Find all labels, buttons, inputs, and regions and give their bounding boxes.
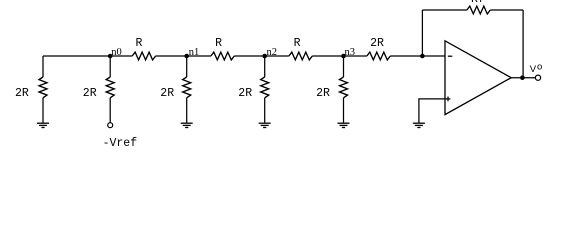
- svg-text:R: R: [136, 37, 143, 50]
- svg-text:n1: n1: [189, 47, 200, 58]
- svg-text:2R: 2R: [370, 37, 384, 50]
- terminal circle -Vref: [108, 123, 113, 128]
- wire: op-amp output to Vo terminal: [511, 77, 535, 79]
- ground op-amp + input: [413, 123, 425, 127]
- resistor 2R branch n0: [106, 77, 114, 98]
- ground branch n2: [259, 123, 271, 127]
- wire: feedback right vertical down to output: [522, 10, 524, 78]
- ground branch n3: [338, 123, 350, 127]
- wire: non-inverting input to ground: [419, 99, 445, 123]
- svg-text:n3: n3: [345, 47, 356, 58]
- resistor 2R branch n2: [261, 77, 269, 98]
- wire: rail R1 to R2 through n1: [156, 55, 211, 57]
- svg-text:2R: 2R: [15, 87, 29, 100]
- svg-text:Rf: Rf: [471, 0, 485, 6]
- wire: branch 1 vertical stub bottom: [42, 98, 44, 123]
- ground branch 1: [37, 123, 49, 127]
- svg-text:2R: 2R: [160, 87, 174, 100]
- wire: branch n2 vertical stub top: [264, 56, 266, 77]
- wire: branch n3 vertical stub top: [343, 56, 345, 77]
- resistor Rf feedback: [467, 6, 490, 14]
- resistor 2R branch n1: [183, 77, 191, 98]
- op-amp U1 triangle: [445, 41, 511, 115]
- wire: branch n1 vertical stub bottom: [186, 98, 188, 123]
- svg-text:R: R: [215, 37, 222, 50]
- svg-text:R: R: [294, 37, 301, 50]
- junction dot feedback tap at inverting input: [420, 54, 425, 59]
- wire: rail R2 to R3 through n2: [234, 55, 289, 57]
- resistor R3 (R, between n2 and n3): [289, 52, 312, 60]
- resistor R1 (R, between n0 and n1): [132, 52, 155, 60]
- resistor 2R branch 1: [39, 77, 47, 98]
- ground branch n1: [181, 123, 193, 127]
- wire: branch n0 vertical stub to -Vref terminal: [109, 98, 111, 123]
- node n0 junction dot: [108, 54, 113, 59]
- wire: branch n2 vertical stub bottom: [264, 98, 266, 123]
- node n3 junction dot: [341, 54, 346, 59]
- wire: branch n1 vertical stub top: [186, 56, 188, 77]
- wire: rail R3 to R4 through n3: [312, 55, 367, 57]
- wire: main rail left segment from top-left corner to R1: [43, 55, 132, 57]
- wire: branch n0 vertical stub top: [109, 56, 111, 77]
- terminal circle Vo: [535, 75, 540, 80]
- op-amp minus sign: [448, 55, 452, 57]
- svg-text:V: V: [530, 64, 537, 75]
- resistor 2R branch n3: [340, 77, 348, 98]
- svg-text:o: o: [537, 62, 542, 73]
- svg-text:2R: 2R: [83, 87, 97, 100]
- svg-text:2R: 2R: [238, 87, 252, 100]
- wire: branch n3 vertical stub bottom: [343, 98, 345, 123]
- svg-text:-Vref: -Vref: [103, 137, 138, 147]
- svg-text:2R: 2R: [316, 87, 330, 100]
- svg-text:n0: n0: [111, 47, 122, 58]
- wire: feedback top left segment: [422, 9, 467, 11]
- node n2 junction dot: [262, 54, 267, 59]
- node n1 junction dot: [184, 54, 189, 59]
- wire: branch 1 vertical stub top: [42, 56, 44, 77]
- wire: feedback left vertical: [421, 10, 423, 56]
- svg-text:n2: n2: [267, 47, 278, 58]
- wire: feedback top right segment: [490, 9, 523, 11]
- junction dot output node: [520, 75, 525, 80]
- resistor R2 (R, between n1 and n2): [211, 52, 234, 60]
- resistor R4 (2R series, n3 to op-amp input): [367, 52, 390, 60]
- op-amp plus sign: [446, 98, 451, 100]
- wire: rail R4 to op-amp inverting input: [390, 55, 445, 57]
